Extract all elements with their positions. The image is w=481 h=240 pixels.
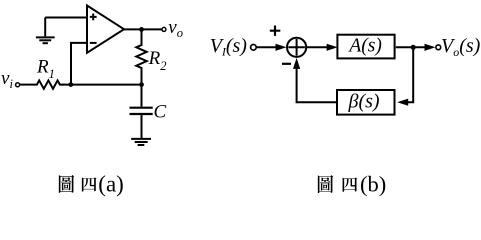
wire input to summer xyxy=(256,46,276,48)
svg-text:vi: vi xyxy=(1,68,13,91)
block beta(s) xyxy=(337,90,395,115)
wire terminal to R1 xyxy=(20,84,34,86)
summing junction xyxy=(287,38,306,57)
svg-text:(b): (b) xyxy=(360,172,386,197)
svg-text:Vo(s): Vo(s) xyxy=(441,35,481,59)
wire output node down to beta xyxy=(408,47,414,102)
svg-text:C: C xyxy=(154,102,167,123)
input terminal circle xyxy=(251,45,257,51)
arrowhead into beta right side xyxy=(397,99,408,106)
arrowhead into A(s) xyxy=(327,44,338,51)
arrowhead into summer xyxy=(276,44,287,51)
svg-text:β(s): β(s) xyxy=(348,91,380,113)
svg-text:VI(s): VI(s) xyxy=(210,35,248,59)
input terminal circle xyxy=(16,83,20,87)
caption 四 (b) xyxy=(343,178,358,192)
arrowhead up into summer xyxy=(293,58,300,69)
op-amp U1 xyxy=(87,6,124,53)
output terminal circle xyxy=(162,27,166,31)
caption 四 (a) xyxy=(82,177,97,191)
wire op-amp - input feedback xyxy=(71,43,87,85)
wire ground to op-amp + input xyxy=(45,17,87,19)
resistor R1 xyxy=(34,80,64,88)
minus sign xyxy=(282,63,291,65)
caption 圖 (a) xyxy=(59,175,74,193)
svg-text:A(s): A(s) xyxy=(347,36,382,57)
svg-text:(a): (a) xyxy=(98,172,124,197)
svg-text:R2: R2 xyxy=(148,48,167,73)
wire beta to summer xyxy=(297,68,338,102)
junction output node xyxy=(411,45,416,50)
wire op-amp output xyxy=(124,28,161,30)
output terminal circle xyxy=(436,45,441,50)
resistor R2 xyxy=(136,31,146,85)
svg-text:R1: R1 xyxy=(36,56,55,81)
block A(s) xyxy=(337,35,394,59)
capacitor C xyxy=(130,85,153,138)
junction C node xyxy=(139,82,144,87)
caption 圖 (b) xyxy=(318,175,333,193)
ground (op-amp + input) xyxy=(36,18,55,44)
wire A(s) to output xyxy=(396,46,425,48)
arrowhead into output terminal xyxy=(425,44,436,51)
junction output node xyxy=(139,27,144,32)
wire summer to A(s) xyxy=(306,46,327,48)
svg-text:vo: vo xyxy=(168,17,183,40)
junction feedback node xyxy=(68,82,73,87)
wire R1 to C node xyxy=(62,84,142,86)
ground (below C) xyxy=(131,139,151,145)
plus sign xyxy=(270,26,281,36)
